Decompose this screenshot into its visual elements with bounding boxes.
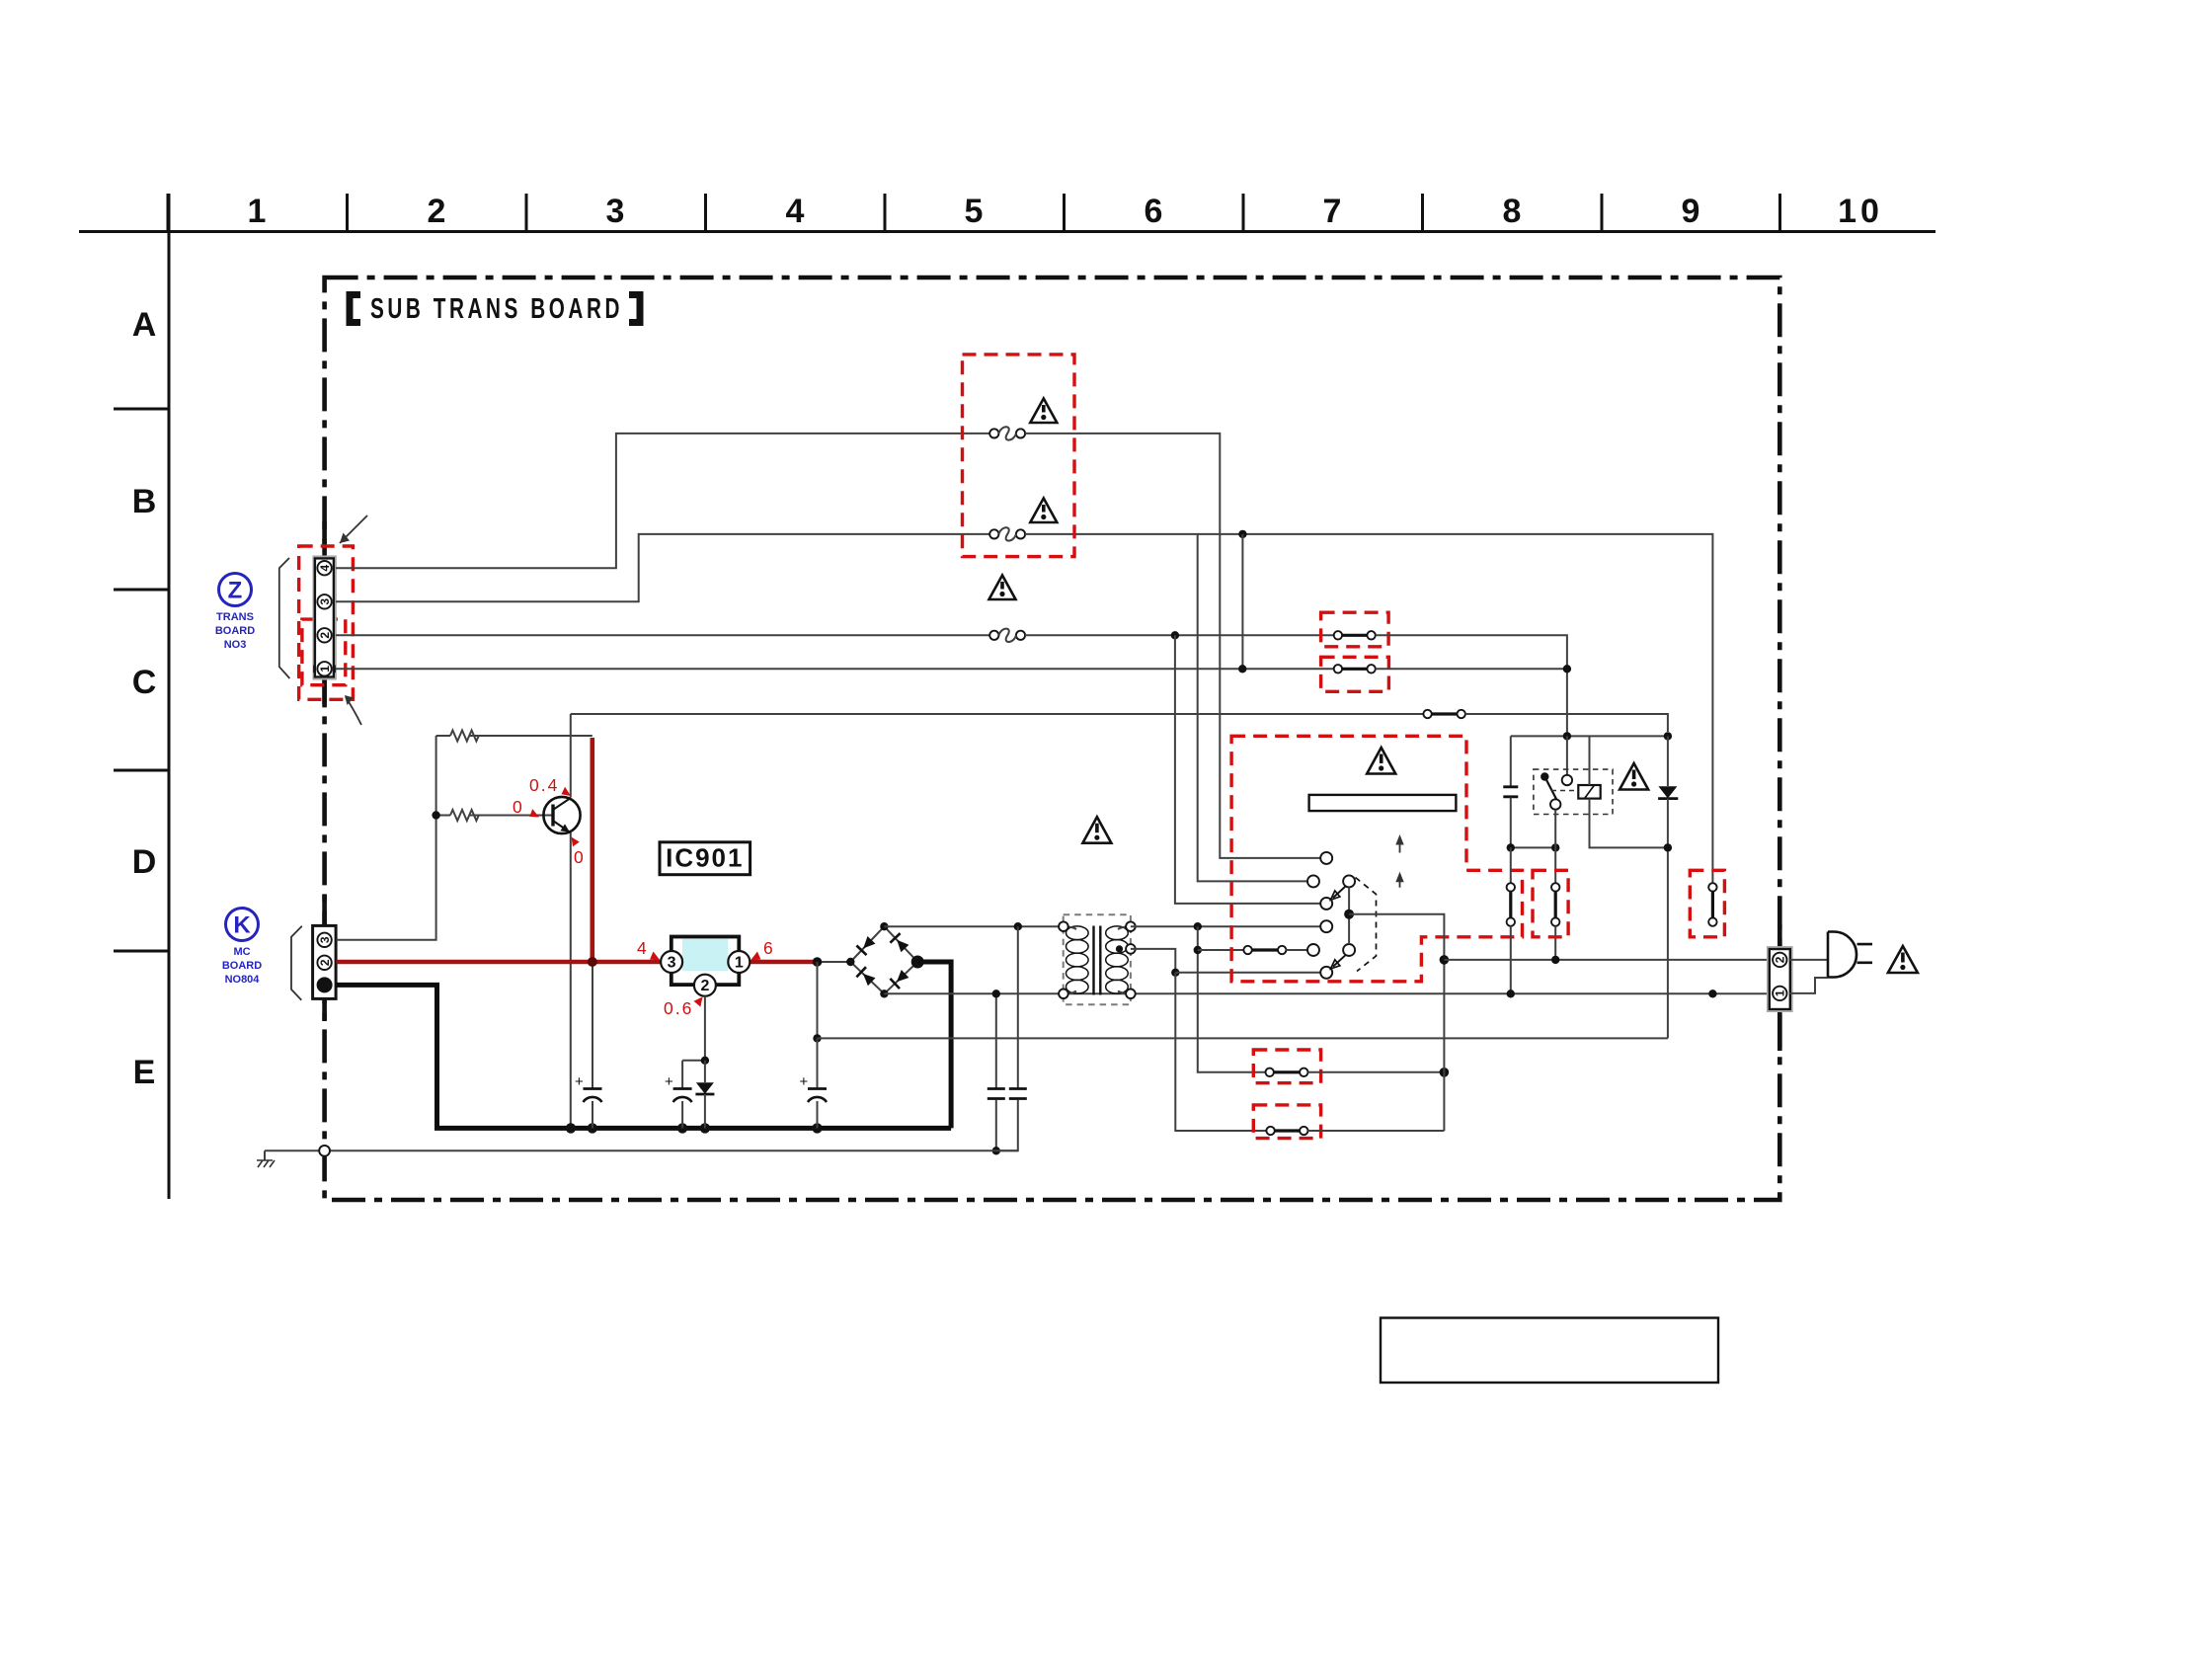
connector Z outer red dashed box: [299, 546, 354, 699]
jumper J1: [1334, 631, 1376, 639]
wire Z pin3 to fuse F2: [336, 534, 989, 601]
thick red wire from R1 down to AC bus: [590, 738, 594, 962]
wire J2 to relay feed line: [1376, 668, 1567, 670]
link L2: [1551, 883, 1559, 960]
svg-text:E: E: [133, 1054, 156, 1091]
svg-text:4: 4: [318, 565, 332, 572]
fuse F1: [989, 427, 1025, 439]
svg-text:6: 6: [1145, 193, 1163, 230]
capacitor C3: [800, 1038, 828, 1128]
svg-text:0: 0: [574, 847, 586, 867]
thick wire K pin1 to negative bus: [337, 985, 952, 1128]
wire coil bottom: [1590, 799, 1668, 848]
resistor R2: [436, 810, 552, 821]
wire Z pin2 to fuse F3: [336, 634, 989, 636]
wire pin2 to plug: [1789, 959, 1828, 961]
svg-text:2: 2: [1774, 956, 1787, 963]
diode D903: [695, 1061, 714, 1129]
connector Z pin 1: [317, 662, 331, 675]
wire Z pin4 to fuse F1: [336, 434, 989, 568]
wire transformer mid tap to contact 6: [1131, 949, 1175, 973]
connector K brace: [291, 926, 302, 1000]
node sec top branch: [1194, 922, 1202, 930]
fuse F2: [989, 527, 1025, 540]
wire bridge top vertex to transformer: [884, 925, 1064, 927]
jumper J4: [1266, 1127, 1307, 1135]
svg-text:9: 9: [1682, 193, 1700, 230]
ground rail: [265, 1149, 1018, 1151]
svg-text:BOARD: BOARD: [215, 625, 255, 637]
grid ruler left line: [168, 194, 171, 1199]
connector K pin 3: [317, 933, 331, 947]
wire J1 to relay feed corner: [1376, 635, 1567, 736]
wire branch to switch contact 3: [1175, 635, 1320, 904]
node diode bottom coil join: [1664, 843, 1672, 851]
relay RY901 dashed box: [1534, 769, 1613, 814]
connector Z pin1 side ticks: [314, 666, 335, 673]
svg-text:0.6: 0.6: [664, 998, 693, 1018]
switch red dashed outline: [1231, 736, 1522, 982]
svg-text:2: 2: [428, 193, 446, 230]
wire red rail continues to capacitor C1: [592, 962, 593, 1088]
wire fuse F3 to jumper J1: [1025, 634, 1334, 636]
capacitor C4 branch: [1503, 736, 1518, 847]
node AC secondary hot branch: [1014, 922, 1022, 930]
grid ruler top line: [79, 230, 1935, 233]
switch wiper pole B: [1343, 944, 1355, 956]
leader arrow bottom of Z: [346, 697, 361, 725]
wire contact B down: [1554, 810, 1556, 884]
switch contact 5: [1307, 944, 1319, 956]
relay lever: [1540, 772, 1556, 800]
measurement label 0 base: [513, 797, 539, 818]
wire contact5 line with jumper J6: [1198, 946, 1308, 954]
switch contact 4: [1320, 920, 1332, 932]
node pin1 line junction: [1238, 665, 1246, 673]
svg-text:BOARD: BOARD: [222, 960, 262, 972]
IC901 pin 3: [661, 951, 682, 973]
svg-text:NO3: NO3: [224, 639, 247, 651]
switch contact 2: [1307, 875, 1319, 887]
warning triangle near F2: [1030, 499, 1057, 523]
connector K pin 1: [317, 977, 333, 992]
wire branch F2 corner to switch contact 2: [1198, 534, 1308, 882]
connector Z pin 3: [317, 594, 331, 608]
node on F2 wire: [1238, 530, 1246, 538]
capacitor C1: [575, 1073, 602, 1128]
link L3: [1708, 883, 1716, 926]
wire emitter vertical to negative bus: [570, 832, 572, 1128]
thick red AC live bus K pin2 to bridge: [337, 960, 818, 965]
grid ruler row ticks: [114, 409, 169, 951]
connector Z pin 2: [317, 628, 331, 642]
label K circle: [226, 909, 259, 941]
wire collector rail to relay diode corner: [1465, 714, 1668, 732]
wire cap to contactB bottom tie: [1511, 846, 1555, 848]
wire C2 top rail: [682, 1060, 705, 1062]
svg-text:2: 2: [318, 632, 332, 639]
fuse F3: [989, 629, 1025, 642]
transistor Q1: [543, 797, 580, 833]
wire to relay contact A: [1566, 736, 1568, 775]
IC901 pin 1: [728, 951, 750, 973]
connector K body: [313, 925, 337, 998]
svg-text:IC901: IC901: [666, 843, 744, 873]
connector Z body: [313, 556, 336, 678]
jumper J3: [1266, 1069, 1308, 1076]
node F3 wire branch: [1171, 631, 1179, 639]
wiper tie line: [1348, 887, 1350, 944]
wire transformer secondary top to switch contact 4: [1131, 925, 1320, 927]
connector K pin 2: [317, 956, 331, 970]
transformer T901: [1059, 914, 1136, 1004]
label MC BOARD NO804: [222, 946, 262, 986]
svg-text:10: 10: [1838, 193, 1883, 230]
relay actuate dashed link: [1551, 790, 1577, 792]
wire branch down to jumper J4: [1175, 973, 1266, 1131]
link L1: [1507, 847, 1515, 993]
lever arrow pole A: [1331, 887, 1346, 901]
wire branch F2 line down to pin1 line: [1241, 534, 1243, 669]
node branch to contact5 line: [1194, 946, 1202, 954]
Y-capacitor C6: [996, 926, 1027, 1150]
svg-text:1: 1: [1774, 990, 1787, 996]
red dashed box around L3: [1690, 870, 1724, 937]
AC inlet connector: [1768, 947, 1792, 1011]
svg-text:5: 5: [965, 193, 984, 230]
IC901 reference label box: [660, 842, 750, 875]
label TRANS BOARD NO3: [215, 611, 255, 651]
label 6 at pin1: [750, 938, 775, 961]
warning triangle near F3: [989, 576, 1016, 600]
svg-text:C: C: [132, 664, 157, 701]
svg-text:3: 3: [318, 598, 332, 605]
svg-text:1: 1: [318, 666, 332, 673]
wire collector vertical: [570, 714, 572, 798]
node red bus x600: [588, 957, 597, 967]
diode D902: [1658, 736, 1678, 1038]
board title SUB TRANS BOARD: [350, 293, 640, 325]
AC inlet pin 1: [1773, 987, 1786, 1000]
svg-text:6: 6: [763, 938, 775, 958]
svg-text:1: 1: [248, 193, 267, 230]
ground symbol: [257, 1150, 275, 1167]
AC plug: [1828, 932, 1872, 978]
thick wire bridge negative output: [917, 962, 951, 1128]
node L2 at live bus: [1551, 956, 1559, 964]
wire red bus end to bridge left vertex: [818, 961, 851, 963]
SUB TRANS BOARD dash-dot outline: [325, 277, 1780, 1200]
wire branch down to jumper J3: [1198, 926, 1266, 1072]
warning triangle in switch box: [1367, 748, 1395, 774]
switch contact 6: [1320, 967, 1332, 979]
wire relay top rail: [1511, 735, 1668, 737]
lever arrow pole B: [1331, 955, 1346, 969]
actuate arrow 1: [1395, 834, 1403, 853]
svg-text:TRANS: TRANS: [216, 611, 254, 623]
jumper J5 on collector rail: [1423, 710, 1465, 718]
svg-text:3: 3: [318, 936, 332, 943]
svg-text:K: K: [233, 912, 251, 939]
node 1051 bus left end: [813, 1034, 821, 1042]
svg-text:D: D: [132, 843, 157, 881]
svg-text:8: 8: [1503, 193, 1522, 230]
wire IC901 pin2 down: [704, 996, 706, 1061]
svg-text:SUB TRANS BOARD: SUB TRANS BOARD: [370, 293, 623, 325]
svg-text:4: 4: [786, 193, 805, 230]
connector Z brace: [279, 558, 290, 678]
node board edge on ground rail: [319, 1146, 330, 1156]
relay contact B: [1550, 799, 1560, 809]
node red bus to bridge: [813, 957, 823, 967]
wire collector rail top: [571, 713, 1424, 715]
svg-text:3: 3: [606, 193, 625, 230]
wire J4 to common vertical corner: [1308, 1130, 1445, 1132]
svg-text:+: +: [665, 1073, 673, 1090]
svg-text:3: 3: [668, 955, 676, 972]
bus 1051 to relay diode branch: [818, 1037, 1668, 1039]
resistor R1: [436, 731, 592, 742]
capacitor C2: [665, 1061, 692, 1129]
red dashed box around fuses F1 F2: [963, 355, 1075, 557]
node common at live bus: [1440, 955, 1450, 965]
red dashed box around L2: [1533, 870, 1568, 937]
svg-text:2: 2: [318, 959, 332, 966]
red dashed box around J4: [1253, 1105, 1320, 1139]
red dashed box around J1: [1321, 612, 1389, 647]
svg-text:MC: MC: [233, 946, 250, 958]
connector Z inner red dashed box: [302, 619, 346, 685]
wire pin1 to plug: [1789, 978, 1828, 993]
leader arrow top of Z: [340, 515, 367, 543]
wire J3 to common vertical: [1308, 1071, 1445, 1073]
wire fuse F1 to switch contact 1: [1025, 434, 1320, 858]
measurement label 0.4: [529, 775, 571, 796]
switch contact 1: [1320, 852, 1332, 864]
svg-text:1: 1: [735, 955, 744, 972]
IC901 body: [671, 937, 740, 986]
warning triangle near F1: [1030, 399, 1057, 424]
grid ruler column ticks: [168, 194, 1780, 232]
spare rectangle bottom right: [1381, 1318, 1718, 1384]
switch resistor block: [1309, 795, 1457, 811]
IC901 pin 2: [694, 975, 716, 996]
live bus to AC inlet pin2: [1444, 959, 1773, 961]
switch contact 3: [1320, 898, 1332, 910]
warning triangle near relay: [1619, 763, 1648, 790]
wire to switch contact 6: [1175, 972, 1320, 974]
switch wiper pole A: [1343, 875, 1355, 887]
connector Z pin 4: [317, 561, 331, 575]
svg-text:Z: Z: [228, 578, 243, 604]
measurement label 0 emitter: [572, 837, 586, 868]
warning triangle center D: [1082, 817, 1111, 843]
Y-capacitor C5: [987, 993, 1005, 1150]
bridge rectifier D901: [846, 922, 924, 998]
AC inlet pin 2: [1773, 953, 1786, 967]
label 0.6 at pin2: [664, 997, 703, 1019]
red dashed box around J2: [1321, 657, 1389, 691]
svg-text:2: 2: [700, 978, 709, 994]
warning triangle near AC plug: [1888, 946, 1918, 973]
node L1 at neutral bus: [1507, 990, 1515, 997]
border solid segments at connectors: [322, 521, 327, 1021]
svg-text:0.4: 0.4: [529, 775, 559, 795]
red dashed box around J3: [1253, 1050, 1320, 1083]
wire left vertex node down to C3 and 1051 bus: [817, 962, 819, 1088]
node L3 at neutral bus: [1708, 990, 1716, 997]
node wiper common: [1344, 910, 1354, 919]
svg-text:B: B: [132, 483, 157, 520]
node relay rail cross: [1563, 732, 1571, 740]
node resistor rail: [432, 811, 439, 819]
actuate arrow 2: [1395, 872, 1403, 888]
wire coil top feed: [1589, 736, 1591, 785]
switch common output: [1349, 914, 1444, 1131]
svg-text:7: 7: [1323, 193, 1342, 230]
node J3 line at common vertical: [1440, 1068, 1450, 1077]
svg-text:+: +: [800, 1073, 809, 1090]
neutral return bus bridge bottom to AC pin1: [884, 992, 1773, 994]
svg-text:0: 0: [513, 797, 524, 817]
wire Z pin1 to jumper J2: [336, 668, 1334, 670]
label 4 at pin3: [637, 938, 661, 961]
svg-text:+: +: [575, 1073, 584, 1090]
wire fuse F2 to link L3 and AC side: [1025, 534, 1712, 883]
switch mech dashed linkage: [1356, 878, 1377, 972]
node mid tap branch: [1171, 969, 1179, 977]
svg-text:NO804: NO804: [225, 974, 261, 986]
label Z circle: [219, 574, 252, 606]
wire resistor left rail to K pin3: [337, 736, 436, 940]
relay contact A: [1562, 775, 1572, 785]
svg-text:4: 4: [637, 938, 649, 958]
node diode top: [1664, 732, 1672, 740]
svg-text:A: A: [132, 306, 157, 344]
node Y-caps at ground rail: [992, 1147, 1000, 1154]
relay coil: [1578, 785, 1600, 799]
node relay feed 677: [1563, 665, 1571, 673]
jumper J2: [1334, 665, 1376, 673]
